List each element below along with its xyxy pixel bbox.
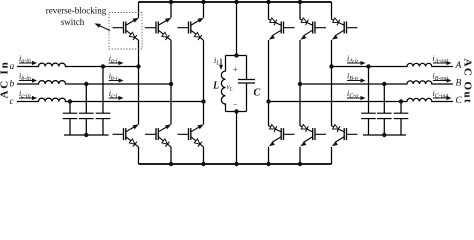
svg-text:A: A	[455, 61, 462, 71]
svg-text:switch: switch	[61, 17, 85, 27]
svg-text:−: −	[233, 100, 238, 109]
svg-text:+: +	[233, 65, 238, 74]
svg-text:C: C	[254, 88, 261, 99]
svg-text:L: L	[212, 81, 219, 92]
svg-text:reverse-blocking: reverse-blocking	[46, 5, 107, 15]
svg-text:vL: vL	[227, 83, 233, 92]
svg-text:c: c	[10, 97, 15, 107]
svg-text:a: a	[10, 62, 15, 72]
svg-text:b: b	[10, 80, 15, 90]
svg-text:AC Out: AC Out	[462, 59, 474, 105]
svg-text:C: C	[456, 96, 463, 106]
svg-text:iL: iL	[214, 56, 220, 67]
svg-text:B: B	[456, 79, 462, 89]
